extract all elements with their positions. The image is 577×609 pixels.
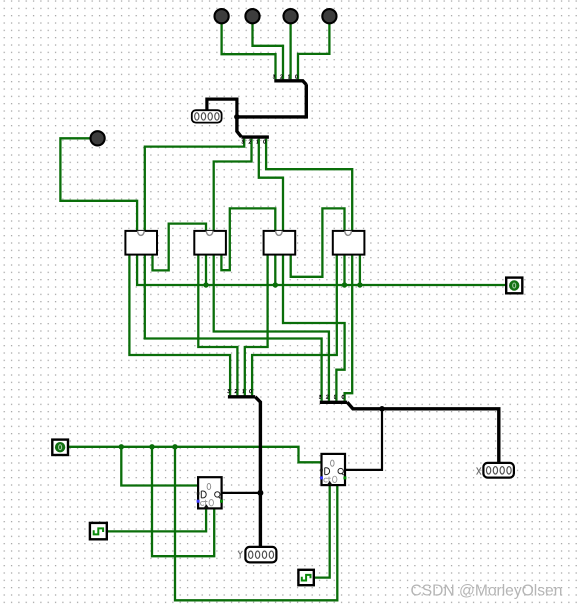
junction dot probe bus <box>234 114 240 120</box>
splitter SP4 <box>319 395 347 402</box>
wire U1 pin2 and horizontal rail to output pin <box>137 255 506 285</box>
junction dot rail-left 3 <box>172 444 177 449</box>
display Y value 0000 <box>238 547 276 563</box>
wire U4 pin2 drop <box>343 255 345 285</box>
wire splitter SP2 bit1 to U3 top-right pin <box>259 139 283 231</box>
output pin carry-out <box>506 278 522 294</box>
svg-text:CSDN @MorleyOlsen: CSDN @MorleyOlsen <box>411 582 563 599</box>
wire U3 pin4 carry to U4 top-left pin <box>291 208 345 276</box>
wire U4 pin1 to splitter SP3 bit0 <box>252 255 337 396</box>
wire rail branch to DFF U5 south reset pin <box>152 447 214 556</box>
wire U2 pin2 drop <box>205 255 207 285</box>
junction dot sum-rail U4 pin2 <box>342 282 347 287</box>
junction dot rail-left 1 <box>119 444 124 449</box>
subcircuit U4 <box>333 231 365 255</box>
wire U2 pin1 to splitter SP3 bit2 <box>198 255 237 396</box>
WIRES-GREEN <box>60 23 506 600</box>
splitter SP1 <box>273 75 306 85</box>
D flip-flop U5 <box>197 477 223 508</box>
wire splitter SP2 bit3 to U1 top-right pin <box>145 139 244 231</box>
wire carry-in button to U1 top-left pin <box>60 138 137 231</box>
wire button1 to splitter SP1 bit1 <box>289 23 291 79</box>
wire button0 to splitter SP1 bit0 <box>298 23 329 79</box>
display X value 0000 <box>477 463 514 478</box>
wire U3 pin2 drop <box>274 255 276 285</box>
wire DFF U5 Q output to Y bus junction <box>221 492 260 494</box>
bus splitter SP3 to display Y <box>255 397 260 547</box>
wire button2 to splitter SP1 bit2 <box>253 23 284 79</box>
wire U1 pin1 to splitter SP3 bit3 <box>129 255 230 396</box>
button IN3 <box>215 9 229 23</box>
clock CLK1 <box>90 523 107 539</box>
wire splitter SP2 bit2 to U2 top-right pin <box>214 139 252 231</box>
wire rail branch to DFF U5 D input <box>121 447 198 486</box>
junction dot rail-left 2 <box>149 444 154 449</box>
clock CLK2 <box>298 570 313 585</box>
D flip-flop U6 <box>320 454 346 485</box>
wire U4 pin3 to splitter SP4 bit0 <box>345 255 353 401</box>
wire U2 pin3 to splitter SP4 bit2 <box>214 255 329 401</box>
input pin constant-0 <box>52 440 68 455</box>
wire clock CLK2 to DFF U6 clock pin <box>314 485 330 577</box>
wire DFF U6 Q output to X bus junction <box>345 409 382 470</box>
probe P1 value 0000 <box>192 110 222 122</box>
wire probe P1 to bus junction <box>207 99 237 117</box>
button carry-in <box>91 131 105 145</box>
splitter SP2 <box>241 137 269 143</box>
splitter SP3 <box>228 389 256 396</box>
junction dot sum-rail U2 <box>203 282 208 287</box>
button IN1 <box>284 9 298 23</box>
junction dot Y bus <box>257 490 263 496</box>
wire U1 pin4 carry to U2 top-left pin <box>153 224 207 271</box>
wire button3 to splitter SP1 bit3 <box>222 23 276 79</box>
button IN2 <box>245 9 259 23</box>
wire input pin rail to DFF U6 D input <box>68 447 322 463</box>
wire clock CLK1 to DFF U5 clock pin <box>107 508 206 531</box>
subcircuit U3 <box>264 231 296 255</box>
subcircuit U1 <box>125 231 157 255</box>
wire U4 pin4 drop <box>359 255 361 285</box>
bus splitter SP4 to display X <box>347 402 499 463</box>
junction dot sum-rail U4 pin4 <box>357 282 362 287</box>
WIRES-BLACK <box>207 84 499 547</box>
bus splitter SP1 to splitter SP2 <box>237 84 306 137</box>
wire U3 pin3 to splitter SP4 bit1 <box>283 255 345 401</box>
wire U2 pin4 carry to U3 top-left pin <box>221 208 275 270</box>
wire splitter SP2 bit0 to U4 top-right pin <box>266 139 352 231</box>
button IN0 <box>322 9 336 23</box>
junction dot X bus <box>379 406 385 412</box>
wire U1 pin3 to splitter SP4 bit3 <box>145 255 322 401</box>
subcircuit U2 <box>194 231 226 255</box>
junction dot sum-rail U3 <box>273 282 278 287</box>
wire rail branch to DFF U6 south reset pin <box>175 447 337 601</box>
wire U3 pin1 to splitter SP3 bit1 <box>245 255 268 396</box>
